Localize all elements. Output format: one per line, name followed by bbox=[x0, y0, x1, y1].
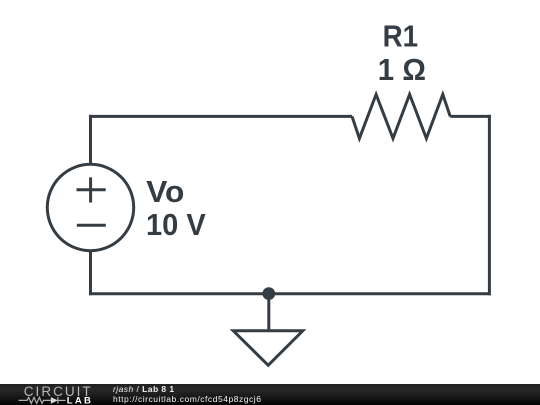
voltage source V1 circle bbox=[47, 164, 133, 250]
CircuitLab logo diode triangle bbox=[51, 397, 58, 404]
svg-text:Vo: Vo bbox=[146, 174, 184, 209]
svg-text:R1: R1 bbox=[383, 19, 419, 54]
node junction dot bbox=[262, 287, 275, 300]
svg-text:http://circuitlab.com/cfcd54p8: http://circuitlab.com/cfcd54p8zgcj6 bbox=[113, 393, 261, 403]
svg-text:10 V: 10 V bbox=[146, 207, 206, 242]
wire bottom horizontal bbox=[89, 292, 491, 295]
voltage source minus sign bbox=[77, 224, 106, 227]
wire top horizontal bbox=[89, 115, 352, 118]
svg-text:LAB: LAB bbox=[67, 395, 93, 405]
ground symbol triangle bbox=[233, 331, 302, 366]
svg-text:rjash / Lab 8 1: rjash / Lab 8 1 bbox=[113, 384, 175, 394]
wire bottom-left vertical (source bottom to corner) bbox=[89, 251, 92, 295]
footer bar bbox=[0, 384, 540, 405]
wire top-left vertical (corner to source top) bbox=[89, 115, 92, 164]
svg-text:1 Ω: 1 Ω bbox=[378, 52, 426, 87]
ground stub wire bbox=[267, 294, 270, 331]
voltage source plus sign bbox=[77, 177, 106, 202]
resistor R1 zigzag bbox=[352, 94, 450, 138]
CircuitLab logo schematic line with resistor and diode bbox=[19, 397, 66, 404]
wire right vertical bbox=[488, 115, 491, 295]
wire resistor right lead bbox=[450, 115, 491, 118]
